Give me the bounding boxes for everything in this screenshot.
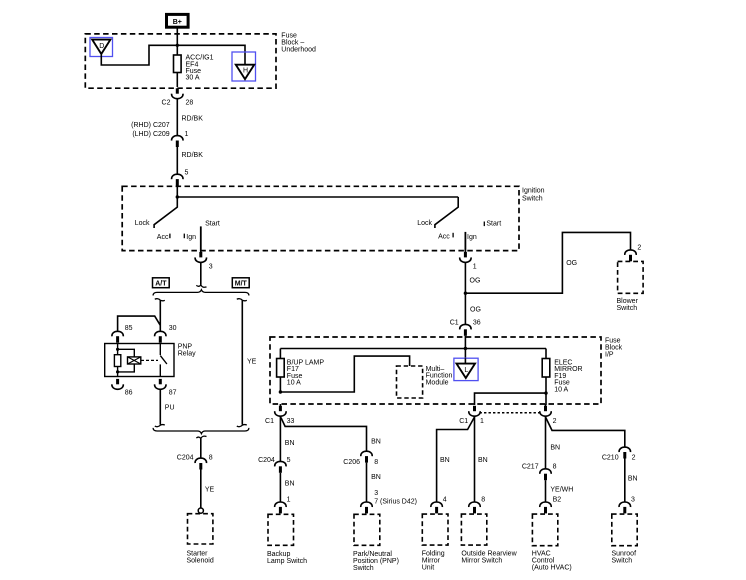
svg-text:2: 2 [553,418,557,425]
svg-text:30: 30 [169,325,177,332]
svg-text:YE: YE [205,487,215,494]
svg-text:RD/BK: RD/BK [182,115,204,122]
svg-text:1: 1 [287,497,291,504]
svg-text:OG: OG [566,260,577,267]
svg-text:YE/WH: YE/WH [550,487,573,494]
svg-text:8: 8 [374,459,378,466]
svg-text:5: 5 [287,457,291,464]
svg-text:(RHD) C207: (RHD) C207 [131,122,170,129]
svg-text:B2: B2 [553,496,562,503]
svg-text:Lamp Switch: Lamp Switch [267,558,307,565]
svg-text:YE: YE [247,358,257,365]
svg-text:B+: B+ [173,19,182,26]
svg-text:C217: C217 [522,464,539,471]
svg-text:8: 8 [481,496,485,503]
svg-text:86: 86 [125,389,133,396]
svg-text:C206: C206 [343,459,360,466]
svg-text:7 (Sirius D42): 7 (Sirius D42) [374,498,417,505]
svg-text:Switch: Switch [617,305,638,312]
svg-text:1: 1 [185,131,189,138]
svg-text:I/P: I/P [605,352,614,359]
svg-text:Mirror Switch: Mirror Switch [461,558,502,565]
svg-text:36: 36 [473,320,481,327]
svg-text:8: 8 [553,464,557,471]
svg-text:BN: BN [628,476,638,483]
svg-text:Solenoid: Solenoid [187,558,214,565]
svg-text:Position (PNP): Position (PNP) [353,558,399,565]
svg-text:Relay: Relay [178,350,196,357]
svg-text:L: L [464,367,468,374]
svg-text:Lock: Lock [417,220,432,227]
svg-text:A/T: A/T [155,280,167,287]
svg-text:(Auto HVAC): (Auto HVAC) [532,565,572,572]
svg-text:(LHD) C209: (LHD) C209 [132,131,169,138]
svg-text:Start: Start [486,221,501,228]
svg-text:PNP: PNP [178,343,193,350]
svg-text:H: H [243,68,248,75]
svg-text:Start: Start [205,220,220,227]
svg-text:C1: C1 [459,418,468,425]
svg-text:Backup: Backup [267,551,290,558]
svg-text:Ignition: Ignition [522,188,545,195]
svg-text:Outside Rearview: Outside Rearview [461,551,517,558]
svg-text:Folding: Folding [422,551,445,558]
svg-text:2: 2 [632,454,636,461]
svg-text:1: 1 [480,418,484,425]
svg-text:Module: Module [426,379,449,386]
svg-text:3: 3 [374,490,378,497]
svg-text:C204: C204 [258,457,275,464]
svg-text:33: 33 [287,418,295,425]
svg-text:HVAC: HVAC [532,551,551,558]
svg-text:Lock: Lock [135,220,150,227]
svg-text:C1: C1 [265,418,274,425]
svg-text:BN: BN [478,457,488,464]
svg-text:C204: C204 [177,455,194,462]
svg-text:Unit: Unit [422,565,435,572]
svg-text:85: 85 [125,325,133,332]
svg-text:Blower: Blower [617,298,639,305]
svg-text:C210: C210 [602,454,619,461]
svg-text:Block: Block [605,345,623,352]
svg-text:Control: Control [532,558,555,565]
svg-text:OG: OG [470,277,481,284]
svg-text:Switch: Switch [522,195,543,202]
svg-text:Switch: Switch [353,565,374,572]
svg-text:BN: BN [371,439,381,446]
svg-text:Park/Neutral: Park/Neutral [353,551,392,558]
svg-text:Acc: Acc [157,234,169,241]
svg-text:4: 4 [443,496,447,503]
svg-text:Switch: Switch [612,558,633,565]
svg-text:28: 28 [186,100,194,107]
svg-text:BN: BN [550,445,560,452]
svg-text:Ign: Ign [467,234,477,241]
svg-text:C1: C1 [450,319,459,326]
svg-text:M/T: M/T [235,280,248,287]
svg-text:30 A: 30 A [186,75,200,82]
svg-text:Ign: Ign [186,234,196,241]
svg-text:D: D [99,43,104,50]
svg-text:BN: BN [371,474,381,481]
svg-text:Mirror: Mirror [422,558,441,565]
svg-text:2: 2 [637,245,641,252]
svg-text:BN: BN [285,480,295,487]
svg-text:1: 1 [473,264,477,271]
svg-text:PU: PU [165,404,175,411]
svg-text:BN: BN [285,440,295,447]
svg-text:Fuse: Fuse [605,338,621,345]
svg-text:3: 3 [631,496,635,503]
svg-text:8: 8 [209,455,213,462]
svg-text:OG: OG [470,307,481,314]
svg-text:BN: BN [440,457,450,464]
svg-text:87: 87 [169,389,177,396]
svg-text:C2: C2 [162,100,171,107]
svg-text:Starter: Starter [187,551,209,558]
svg-text:5: 5 [185,170,189,177]
svg-text:RD/BK: RD/BK [182,152,204,159]
svg-text:Sunroof: Sunroof [612,551,637,558]
svg-text:Acc: Acc [438,234,450,241]
svg-text:Underhood: Underhood [281,46,316,53]
svg-text:3: 3 [209,264,213,271]
svg-text:10 A: 10 A [554,386,568,393]
svg-text:10 A: 10 A [287,380,301,387]
